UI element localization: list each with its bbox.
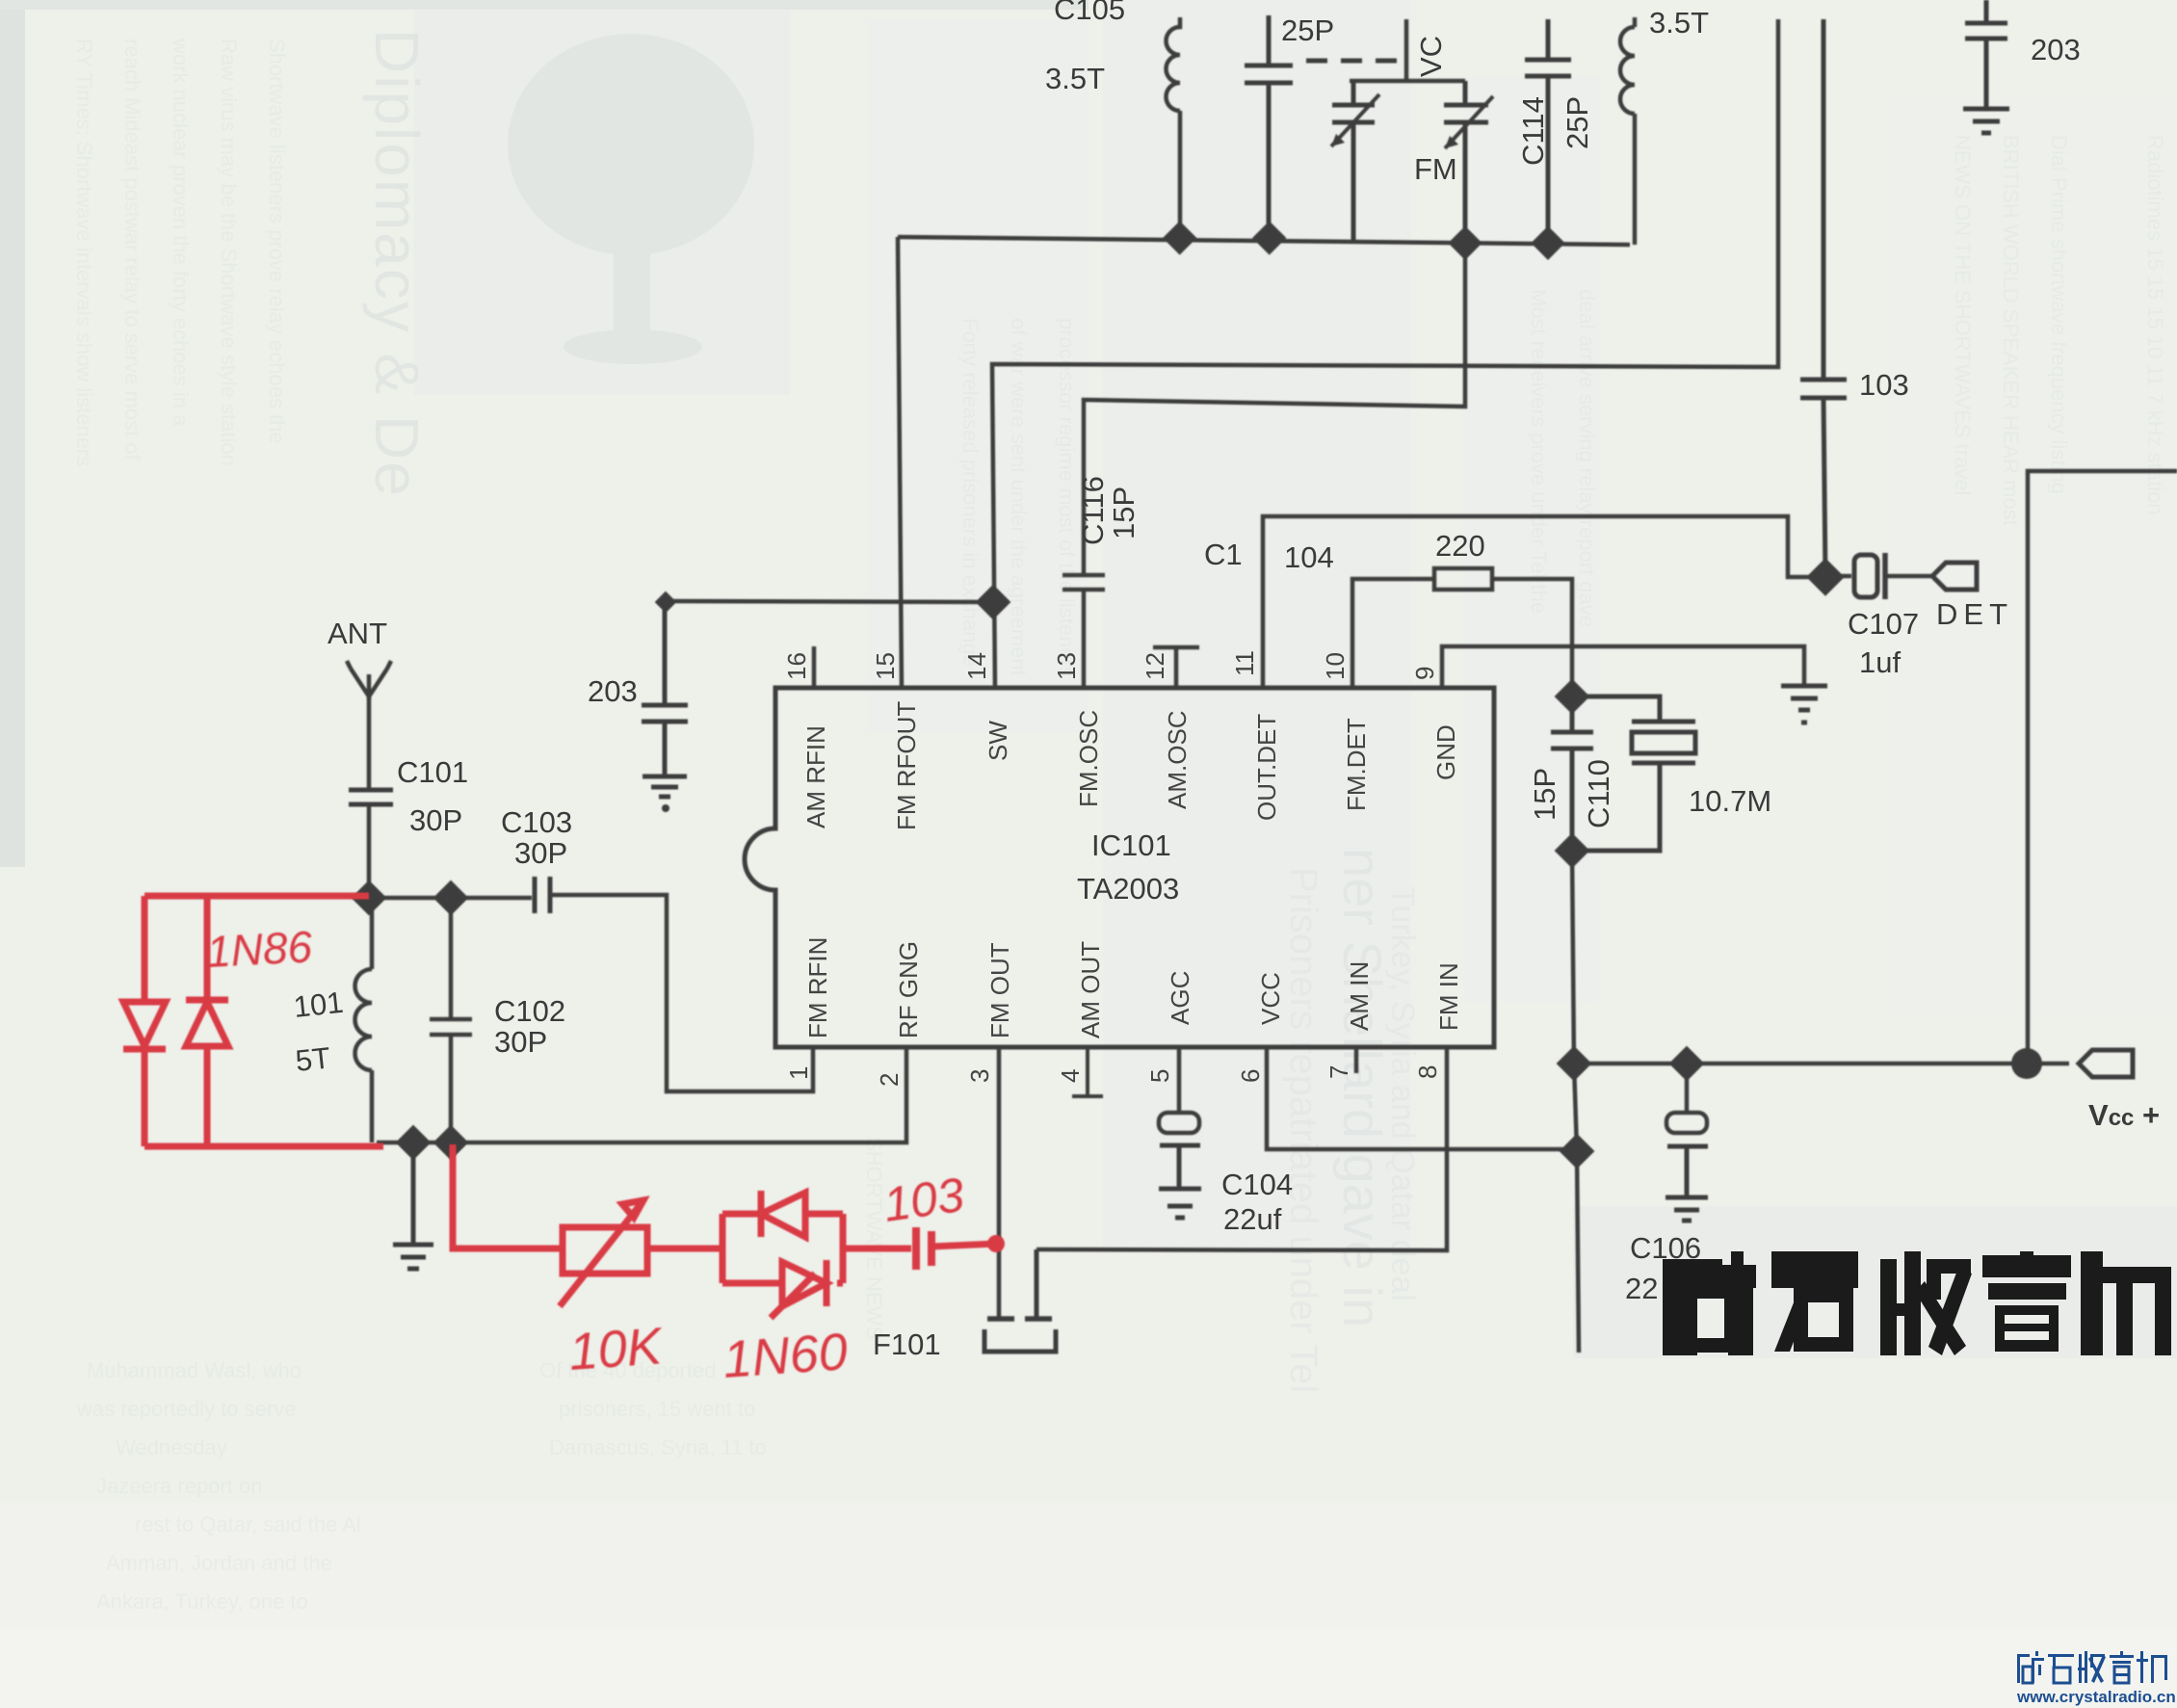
variable resistor 10K: [563, 1227, 647, 1274]
svg-text:30P: 30P: [494, 1025, 547, 1059]
red drop from bus: [453, 1144, 563, 1248]
junction Vcc terminal: [2011, 1048, 2042, 1079]
svg-text:220: 220: [1435, 529, 1485, 563]
svg-text:Damascus, Syria, 11 to: Damascus, Syria, 11 to: [549, 1435, 767, 1459]
wire discr down to Vcc rail: [1572, 851, 1577, 1151]
svg-text:Forty released prisoners in ex: Forty released prisoners in exchange: [958, 318, 983, 667]
wire lower bus to pin2: [377, 1047, 906, 1143]
trimmer VC link dashed: [1306, 59, 1404, 64]
pin 15 wire from top bus: [898, 237, 902, 688]
wire pin3 FM OUT down: [997, 1047, 1002, 1317]
capacitor C103 30P (series): [535, 877, 550, 913]
svg-text:8: 8: [1413, 1065, 1442, 1079]
svg-text:FM: FM: [1414, 152, 1457, 186]
svg-text:5T: 5T: [294, 1040, 332, 1078]
svg-text:FM.DET: FM.DET: [1342, 718, 1371, 811]
svg-text:was reportedly to serve: was reportedly to serve: [76, 1397, 296, 1421]
crystal 10.7M: [1572, 696, 1695, 851]
red bottom rail: [144, 1143, 383, 1150]
blue logo glyph kuang: [2017, 1654, 2030, 1657]
ground pin9: [1781, 686, 1827, 723]
svg-text:VCC: VCC: [1256, 972, 1285, 1025]
svg-text:C101: C101: [397, 755, 468, 789]
ground 203 top right: [1963, 109, 2009, 133]
svg-text:IC101: IC101: [1091, 828, 1171, 862]
svg-text:1N60: 1N60: [721, 1323, 850, 1389]
watermark pale backing box: [1573, 1206, 2177, 1358]
inductor 3.5T right: [1620, 17, 1635, 245]
svg-text:AGC: AGC: [1166, 971, 1194, 1025]
junction pin14 mid: [976, 585, 1011, 620]
svg-text:Turkey, Syria and Qatar deal: Turkey, Syria and Qatar deal: [1384, 886, 1421, 1301]
capacitor C106 22uf: [1685, 1064, 1690, 1113]
pin 12 stub NC: [1153, 647, 1199, 690]
svg-text:30P: 30P: [514, 836, 567, 870]
ceramic filter F101: [987, 1316, 1052, 1322]
wire ANT to C101: [367, 696, 372, 790]
svg-text:FM RFOUT: FM RFOUT: [892, 701, 921, 830]
trimmer B: [1444, 81, 1488, 244]
top bus: [898, 237, 1630, 245]
inductor 101 5T: [355, 898, 373, 1143]
svg-text:C102: C102: [494, 994, 565, 1028]
svg-text:6: 6: [1236, 1069, 1265, 1083]
pin 7 stub NC: [1354, 1047, 1359, 1073]
svg-text:1N86: 1N86: [205, 921, 314, 977]
ground 203 mid: [643, 776, 687, 797]
IC101 TA2003 body: [745, 688, 1494, 1047]
pin 5 wire C104: [1177, 1047, 1182, 1113]
svg-text:Jazeera report on: Jazeera report on: [96, 1474, 262, 1498]
svg-text:Radiotimes 15 15 15 10 11 7 kH: Radiotimes 15 15 15 10 11 7 kHz station: [2143, 135, 2167, 515]
svg-text:Diplomacy & De: Diplomacy & De: [362, 29, 432, 498]
svg-text:of war were sent under the agr: of war were sent under the agreement: [1007, 318, 1031, 676]
svg-text:104: 104: [1284, 540, 1334, 574]
red wire top rail to node A: [144, 893, 369, 900]
blue logo glyph shou: [2079, 1654, 2082, 1683]
svg-text:103: 103: [1859, 368, 1909, 402]
capacitor 25P (top): [1245, 15, 1293, 238]
wire C103 to pin1 drop: [550, 895, 813, 1091]
capacitor C110 15P: [1551, 696, 1593, 851]
svg-text:rest to Qatar, said the Al: rest to Qatar, said the Al: [135, 1512, 361, 1537]
svg-text:10K: 10K: [567, 1317, 666, 1381]
svg-text:Prisoners repatriated under Te: Prisoners repatriated under Tel: [1282, 867, 1325, 1393]
svg-text:22: 22: [1625, 1272, 1658, 1305]
svg-text:C107: C107: [1848, 607, 1919, 641]
watermark glyph kuang: [1663, 1259, 1697, 1355]
svg-text:15P: 15P: [1107, 486, 1141, 539]
blue logo glyph yin: [2110, 1655, 2134, 1658]
svg-text:C110: C110: [1582, 759, 1615, 828]
svg-text:Raw virus may be the Shortwave: Raw virus may be the Shortwave style sta…: [217, 39, 241, 466]
capacitor C114 25P: [1525, 19, 1571, 244]
svg-text:22uf: 22uf: [1223, 1202, 1282, 1236]
svg-text:Wednesday: Wednesday: [116, 1435, 227, 1459]
blue logo glyph shi: [2048, 1654, 2074, 1657]
svg-text:OUT.DET: OUT.DET: [1252, 714, 1281, 821]
svg-text:FM RFIN: FM RFIN: [803, 937, 832, 1038]
junction trimmerB bus: [1448, 226, 1482, 260]
svg-text:Muhammad Wasl, who: Muhammad Wasl, who: [87, 1358, 302, 1382]
ground C104: [1159, 1189, 1201, 1218]
svg-text:FM.OSC: FM.OSC: [1074, 710, 1103, 807]
scan edge shading: [0, 0, 25, 867]
wire pin11 to C107 junction: [1263, 516, 1825, 690]
svg-text:11: 11: [1230, 650, 1259, 676]
DET connector: [1932, 563, 1977, 590]
junction coil1: [1163, 221, 1196, 254]
svg-text:C1: C1: [1204, 538, 1243, 571]
svg-text:13: 13: [1052, 652, 1081, 680]
svg-text:ner Shellard gave in: ner Shellard gave in: [1332, 848, 1393, 1327]
svg-text:reach Mideast postwar relay to: reach Mideast postwar relay to serve mos…: [120, 39, 144, 461]
junction C107: [1806, 558, 1845, 596]
svg-text:C116: C116: [1076, 476, 1110, 545]
svg-text:15: 15: [871, 652, 900, 680]
capacitor C102 30P: [430, 898, 472, 1143]
svg-text:203: 203: [588, 674, 638, 708]
svg-text:GND: GND: [1431, 724, 1460, 780]
bleed pale bands: [1103, 0, 1411, 1252]
svg-text:Shortwave listeners prove rela: Shortwave listeners prove relay echoes t…: [265, 39, 289, 444]
svg-text:103: 103: [880, 1168, 968, 1232]
pin 16 stub: [812, 646, 817, 688]
capacitor C101 30P: [349, 790, 393, 804]
svg-text:5: 5: [1145, 1069, 1174, 1083]
svg-text:12: 12: [1141, 652, 1169, 680]
wire 203 branch left: [665, 601, 993, 602]
power entry corner top right: [2028, 471, 2177, 1064]
svg-text:VC: VC: [1414, 36, 1448, 77]
junction vcc tap: [1557, 1046, 1592, 1082]
capacitor 203 top right: [1965, 0, 2007, 109]
svg-text:203: 203: [2031, 33, 2081, 66]
bleed wine glass image: [508, 34, 754, 364]
svg-text:C104: C104: [1221, 1168, 1293, 1201]
diode D1 down: [123, 1002, 166, 1049]
ground under bus: [393, 1143, 433, 1269]
svg-text:ANT: ANT: [328, 617, 387, 650]
inductor 3.5T (top): [1167, 17, 1181, 238]
svg-text:Dial Prime shortwave frequency: Dial Prime shortwave frequency listing: [2047, 135, 2071, 494]
node B junction (C102 top): [433, 880, 469, 916]
antenna ANT: [347, 661, 391, 699]
svg-text:3: 3: [965, 1069, 994, 1083]
svg-text:prisoners, 15 went to: prisoners, 15 went to: [559, 1397, 755, 1421]
svg-text:30P: 30P: [409, 803, 462, 837]
trimmer A: [1332, 81, 1375, 243]
svg-text:SHORTWAVE NEWS: SHORTWAVE NEWS: [862, 1137, 886, 1340]
svg-text:4: 4: [1056, 1069, 1085, 1083]
svg-text:F101: F101: [873, 1327, 941, 1361]
svg-text:14: 14: [962, 652, 991, 680]
svg-text:RF GNG: RF GNG: [894, 941, 923, 1038]
watermark glyph ji (cut at edge): [2081, 1251, 2103, 1355]
svg-text:AM RFIN: AM RFIN: [801, 725, 830, 828]
svg-text:25P: 25P: [1281, 13, 1334, 47]
svg-text:FM OUT: FM OUT: [985, 942, 1014, 1038]
svg-text:101: 101: [292, 985, 345, 1024]
svg-text:TA2003: TA2003: [1077, 872, 1179, 906]
wire F101 to pin8: [1036, 1047, 1447, 1250]
svg-text:C105: C105: [1054, 0, 1125, 26]
wire 220 right to discr: [1492, 579, 1572, 695]
svg-text:work nuclear proven the forty: work nuclear proven the forty echoes in …: [169, 38, 193, 427]
svg-text:www.crystalradio.cn: www.crystalradio.cn: [2016, 1688, 2176, 1706]
capacitor 203 (mid): [642, 601, 688, 776]
watermark glyph shou: [1880, 1259, 1897, 1355]
svg-text:9: 9: [1410, 667, 1439, 680]
junction C102 bottom: [433, 1125, 469, 1161]
junction C114 bus: [1531, 226, 1564, 260]
watermark glyph yin: [1982, 1255, 2071, 1277]
wire down below vcc (cut by watermark): [1577, 1151, 1579, 1353]
junction ground drop: [396, 1125, 432, 1161]
svg-text:BRITISH WORLD SPEAKER HEAR mos: BRITISH WORLD SPEAKER HEAR most: [1999, 135, 2023, 526]
Vcc rail: [1574, 1062, 2069, 1066]
junction discr top: [1555, 679, 1590, 715]
diode pair 1N60: [722, 1214, 843, 1283]
red capacitor 103: [916, 1227, 931, 1270]
wire node A to C103: [369, 896, 532, 901]
svg-text:10: 10: [1321, 652, 1350, 680]
junction cap25P: [1252, 221, 1286, 254]
capacitor C107 1uf: [1827, 574, 1851, 579]
svg-text:AM.OSC: AM.OSC: [1163, 710, 1192, 809]
svg-text:2: 2: [875, 1073, 904, 1087]
vertical B with cap 103: [1800, 19, 1847, 577]
svg-text:AM OUT: AM OUT: [1076, 941, 1105, 1038]
svg-text:DET: DET: [1936, 597, 2013, 631]
svg-text:7: 7: [1325, 1065, 1353, 1079]
wire SW net: pin14 up and right to vertical A: [992, 19, 1778, 690]
wire pin6 VCC: [1267, 1047, 1577, 1149]
svg-text:1: 1: [784, 1066, 813, 1080]
svg-text:RY Times: Shortwave intervals: RY Times: Shortwave intervals show liste…: [72, 39, 96, 466]
Vcc connector: [2079, 1050, 2133, 1077]
svg-text:25P: 25P: [1561, 96, 1594, 149]
pin 4 stub NC: [1072, 1047, 1103, 1096]
svg-text:C103: C103: [501, 805, 572, 839]
ground C106: [1666, 1197, 1708, 1221]
svg-text:15P: 15P: [1528, 768, 1561, 821]
diode D2 up: [186, 1000, 228, 1046]
svg-text:AM IN: AM IN: [1345, 961, 1374, 1031]
red diode pair 1N86: [144, 896, 207, 1146]
svg-text:C114: C114: [1516, 96, 1550, 166]
VC center line: [1350, 19, 1465, 81]
wire pin10 to 220: [1352, 579, 1434, 690]
junction C106: [1669, 1046, 1705, 1082]
svg-text:SW: SW: [984, 721, 1012, 761]
svg-text:3.5T: 3.5T: [1045, 62, 1105, 95]
wire FM OSC net: pin13 via C116: [1062, 122, 1465, 690]
watermark glyph shi: [1771, 1251, 1858, 1288]
svg-text:10.7M: 10.7M: [1689, 784, 1771, 818]
node A junction: [352, 880, 387, 916]
wire C101 to node A: [367, 804, 372, 898]
svg-text:16: 16: [782, 652, 811, 680]
svg-text:Amman, Jordan and the: Amman, Jordan and the: [106, 1551, 332, 1575]
blue logo glyph ji: [2140, 1651, 2143, 1683]
svg-text:Ankara, Turkey, one to: Ankara, Turkey, one to: [96, 1590, 308, 1614]
svg-text:FM IN: FM IN: [1434, 962, 1463, 1031]
svg-text:deal arrive serving relay repo: deal arrive serving relay report gave: [1575, 289, 1599, 627]
wire pin9 GND to ground: [1442, 646, 1804, 690]
junction pin6 rail: [1560, 1134, 1595, 1169]
svg-text:NEWS ON THE SHORTWAVES travel: NEWS ON THE SHORTWAVES travel: [1951, 135, 1975, 495]
resistor 220: [1434, 568, 1492, 590]
svg-text:1uf: 1uf: [1859, 645, 1901, 679]
svg-text:3.5T: 3.5T: [1649, 6, 1709, 39]
junction discr bottom: [1555, 833, 1590, 869]
capacitor C104 22uf: [1159, 1113, 1199, 1133]
svg-text:Most receivers prove under Tel: Most receivers prove under Tel the: [1527, 289, 1551, 614]
